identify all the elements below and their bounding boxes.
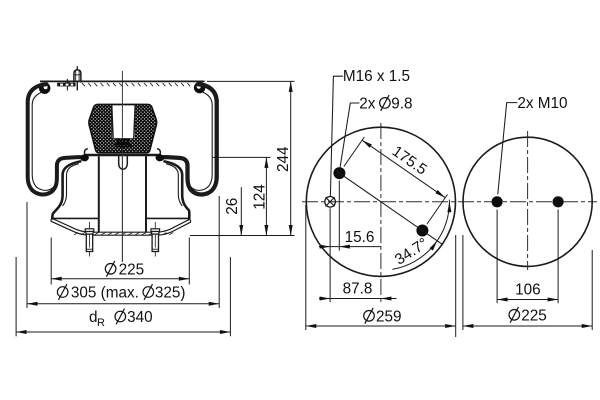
clamp band	[57, 83, 75, 87]
valve body	[74, 70, 81, 82]
diagonal line through holes	[336, 171, 443, 245]
svg-text:2x M10: 2x M10	[517, 95, 567, 112]
piston tube left wall	[98, 156, 100, 232]
dimension line 106	[497, 299, 558, 301]
ext lines dia225 right view	[462, 235, 464, 330]
ext lines dia225 left view	[50, 238, 52, 285]
center bolt head	[117, 138, 129, 144]
dimension line dR dia340	[16, 331, 230, 333]
piston bottom left edge curl	[51, 219, 52, 222]
svg-text:9.8: 9.8	[391, 95, 412, 112]
leader 2x M10	[498, 103, 517, 194]
left plate bead	[39, 83, 50, 94]
svg-text:244: 244	[275, 146, 292, 172]
valve below plate	[76, 82, 78, 90]
top plate section hatching	[82, 83, 190, 86]
bellow inner line right	[188, 93, 212, 191]
bellow inner line left	[32, 93, 56, 191]
leader 2x dia9.8	[340, 103, 359, 167]
svg-text:340: 340	[127, 309, 153, 326]
bellow clamp blob right	[156, 154, 165, 161]
svg-text:15.6: 15.6	[345, 229, 375, 246]
piston right wall	[165, 161, 190, 219]
dimension line dia305	[27, 303, 219, 305]
right circle dia225	[463, 137, 592, 266]
dimension line 26	[240, 187, 242, 235]
piston bottom plate upper line	[52, 219, 189, 233]
piston top right lip	[158, 149, 161, 155]
ext line from valve hole	[329, 208, 331, 302]
dimension text dia259	[364, 311, 375, 322]
ext lines dia340	[15, 257, 17, 336]
dimension line 15.6	[319, 246, 381, 248]
right hole right	[553, 196, 564, 207]
dimension line dia225 left view	[51, 278, 189, 280]
svg-text:305 (max.: 305 (max.	[71, 285, 139, 302]
valve hole crossed circle	[325, 197, 336, 208]
piston top plate	[84, 154, 161, 157]
middle circle vertical centerline	[380, 123, 382, 302]
leader M16x1.5	[330, 76, 342, 196]
svg-text:259: 259	[376, 308, 402, 325]
svg-text:2x: 2x	[359, 95, 376, 112]
clamp pin	[66, 79, 68, 91]
dimension line 175.5	[362, 140, 445, 198]
dimension text dia225 right view	[509, 310, 520, 321]
center line through buffer slot	[121, 104, 123, 138]
extension line bottom (26/124/244)	[190, 235, 295, 237]
extension line top (244)	[207, 80, 295, 82]
piston inner shelf left	[53, 217, 99, 219]
angle arc 34.7	[393, 200, 450, 269]
dimension text dia305 max325	[57, 287, 68, 298]
piston top left lip	[84, 149, 87, 155]
valve body inner lines	[75, 71, 77, 82]
svg-text:225: 225	[521, 307, 547, 324]
svg-text:87.8: 87.8	[343, 281, 373, 298]
center bolt washer	[115, 143, 131, 145]
bolt hole upper left	[333, 167, 345, 179]
ext lines dia259	[305, 205, 307, 330]
svg-text:124: 124	[251, 184, 268, 210]
piston bottom right edge curl	[189, 220, 191, 223]
buffer center slot	[112, 105, 135, 138]
bellow outer wall left	[28, 84, 85, 194]
svg-text:325): 325)	[155, 285, 186, 302]
middle circle dia259	[306, 127, 455, 276]
left stud centerline	[89, 222, 91, 257]
svg-text:106: 106	[515, 282, 541, 299]
dimension text dia225 left view	[105, 264, 116, 275]
right circle vertical centerline	[527, 131, 529, 270]
svg-text:R: R	[97, 317, 105, 329]
dimension line 87.8	[319, 298, 397, 300]
dimension line 244	[290, 81, 292, 235]
right stud centerline	[154, 222, 156, 257]
top plate line	[40, 80, 205, 82]
center line below bolt head	[121, 147, 123, 262]
dimension line 124	[265, 157, 267, 235]
piston right wall inner contour	[166, 164, 182, 206]
angle arc arrow at centerline	[447, 202, 451, 213]
buffer slot walls	[112, 105, 113, 138]
piston left wall inner contour	[63, 164, 79, 206]
center bolt shank	[119, 156, 128, 169]
bellow clamp blob left	[80, 154, 89, 161]
svg-text:225: 225	[119, 261, 145, 278]
dimension line dia225 right view	[463, 325, 592, 327]
svg-text:M16 x 1.5: M16 x 1.5	[343, 68, 410, 85]
left stud shank	[86, 234, 92, 251]
svg-text:26: 26	[224, 198, 241, 215]
ext lines 106	[496, 210, 498, 304]
center line of side view	[121, 71, 123, 262]
right stud shank	[152, 234, 158, 251]
rubber buffer crosshatched body	[89, 104, 157, 152]
extension line y157 (124)	[212, 156, 271, 158]
dimension line dia259	[306, 325, 456, 327]
right stud head	[151, 229, 160, 232]
right plate bead	[194, 82, 205, 93]
ext lines dia305	[26, 202, 28, 308]
piston bottom plate lower line	[51, 221, 190, 235]
horizontal centerline both circles	[302, 201, 597, 203]
piston left wall	[52, 161, 80, 218]
ext lines 175.5	[344, 137, 365, 167]
angle arc arrow at diagonal	[430, 241, 438, 251]
piston inner shelf right	[146, 217, 189, 219]
bolt hole lower right	[416, 225, 428, 237]
ext line from upper hole	[338, 181, 340, 251]
piston bottom plate hatching	[74, 233, 173, 235]
piston tube right wall	[145, 156, 147, 232]
bellow outer wall right	[159, 84, 217, 194]
right hole left	[492, 196, 503, 207]
valve stem	[76, 66, 78, 70]
left stud head	[85, 229, 94, 232]
